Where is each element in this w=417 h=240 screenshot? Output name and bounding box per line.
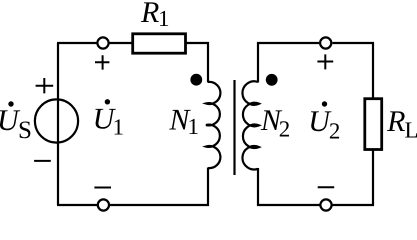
wire terminal to R1 [110,42,133,44]
svg-text:1: 1 [158,6,170,31]
minus sign (U1) [94,187,111,189]
svg-text:1: 1 [113,115,125,140]
plus sign (source) [36,78,54,93]
terminal (secondary top) [320,37,331,48]
plus sign (U1) [95,55,109,69]
minus sign (source) [34,160,51,162]
wire left vertical of primary loop [57,43,59,205]
wire R1 to corner [185,42,209,44]
plus sign (U2) [317,54,333,69]
svg-text:R: R [386,105,405,138]
wire corner down to N1 coil [207,42,209,83]
source US circle [35,99,78,142]
svg-text:2: 2 [279,116,291,141]
terminal (secondary bottom) [320,199,331,210]
resistor R1 [133,34,186,53]
wire bottom of primary loop (left part) [57,204,97,206]
terminal (primary bottom) [98,199,109,210]
terminal (primary top) [97,37,108,48]
polarity dot (N2) [266,74,278,86]
wire N1 bottom to bottom wire [207,168,209,207]
wire right vertical bottom [372,150,374,206]
wire bottom of secondary loop (left part) [257,204,320,206]
wire right vertical top [372,42,374,98]
wire top of secondary loop (right part) [332,42,374,44]
wire top-left segment to terminal [57,42,97,44]
svg-text:R: R [140,0,159,29]
polarity dot (N1) [190,74,202,86]
minus sign (U2) [318,186,335,188]
svg-text:L: L [405,118,417,143]
wire bottom of primary loop (right part) [110,204,209,206]
inductor N1 winding [206,82,220,168]
svg-text:S: S [18,117,32,144]
svg-text:2: 2 [329,119,341,144]
wire bottom of secondary loop (right part) [333,204,375,206]
svg-text:1: 1 [188,114,200,139]
wire N2 bottom to bottom wire [257,168,259,206]
inductor N2 winding [242,81,259,169]
resistor RL [365,99,382,150]
wire N2 top to top wire [257,42,259,83]
wire top of secondary loop (left part) [257,42,319,44]
transformer core [233,80,235,175]
